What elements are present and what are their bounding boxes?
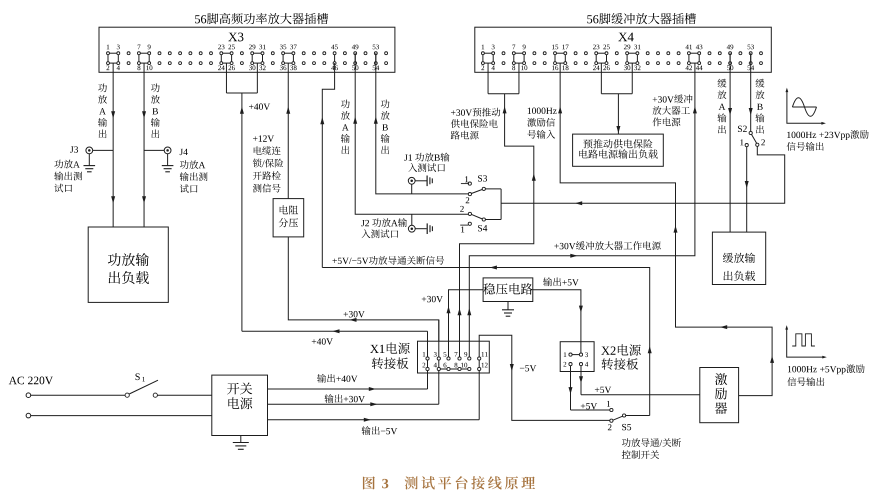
wire 功放B输出 (X3 pins 8/10 to 功放输出负载)	[142, 63, 146, 227]
mains input AC 220V	[9, 376, 212, 417]
label +5V at S5	[581, 403, 597, 409]
wire X4 pins 24-26/30-32 to 预推动 load box	[601, 63, 632, 134]
test port J4 功放A输出测试口	[144, 147, 188, 155]
label S5 功放导通/关断控制开关	[622, 438, 681, 459]
label 1000Hz +5Vpp激励信号输出	[787, 364, 864, 386]
label X2电源转接板	[601, 344, 641, 370]
switch S3 (功放B input select)	[461, 175, 501, 203]
wire 缓放B输出 (X4 pins 53/54 to S2)	[749, 53, 753, 131]
ground at J4	[162, 154, 174, 172]
box 功放输出负载	[88, 227, 168, 302]
label J3 功放A输出测试口	[54, 160, 82, 193]
connector X4 pins	[481, 45, 762, 71]
label 输出+5V	[543, 277, 579, 286]
label +30V缓冲放大器工作电源 (horizontal)	[554, 241, 660, 250]
wire +40V rail (switching PSU to X3)	[242, 329, 428, 333]
wire 输出+30V (PSU to X1 pins 4/3)	[268, 402, 439, 406]
wire 输出-5V (PSU to X1 pin 12)	[268, 418, 480, 422]
label 缓放B输出	[755, 79, 764, 134]
ground at J3	[84, 154, 96, 172]
switch S4 (功放A input select)	[460, 206, 501, 233]
label +30V预推动供电保险电路电源	[451, 108, 501, 140]
wire -5V feed-through (X1 pin 11 loop to S5 contact 2)	[479, 335, 610, 420]
label 输出-5V	[362, 426, 398, 435]
label 功放A输出 (right column)	[341, 100, 350, 155]
test port J2 功放A输入测试口	[408, 214, 432, 234]
wire +5V (X2 pin 4 to 激励器)	[579, 376, 700, 395]
label 1000Hz +23Vpp激励信号输出	[787, 130, 869, 151]
caption 图3 测试平台接线原理	[363, 476, 535, 489]
label J1 功放B输入测试口	[404, 153, 449, 172]
wire 功放B输出 right (X3 pins 53/54 to J1 line and S3)	[374, 53, 469, 194]
wire +5V/-5V 功放导通关断信号 (X3 pin 45/46 down to control line)	[320, 63, 334, 267]
box 电阻分压 (resistor divider)	[273, 199, 304, 237]
source icon 1000Hz +23Vpp sine	[786, 88, 826, 125]
box 预推动供电保险电路电源输出负载	[573, 134, 664, 166]
box 缓放输出负载	[712, 232, 765, 284]
label J2 功放A输入测试口	[361, 218, 407, 238]
label X1电源转接板	[370, 343, 410, 370]
label 缓放A输出	[717, 79, 726, 134]
wire +12V 电缆连锁/保险开路检测信号 (电阻分压 to X3 pins 36/38)	[286, 63, 290, 199]
wire +30V缓冲放大器工作电源 (X1 pin 9 to X4 pins 42/44)	[467, 63, 697, 358]
box 激励器 (exciter)	[700, 368, 739, 423]
board X1 电源转接板	[418, 320, 490, 420]
label 1000Hz激励信号输入	[527, 108, 557, 139]
wire 1000Hz激励信号输入 (激励器 loop up to X4 pins 16/18)	[558, 63, 774, 396]
wire 功放A输出 right (X3 pins 49/50 to J2 line and S4)	[353, 53, 468, 214]
wire 电阻分压 to +30V rail	[288, 237, 439, 341]
label +5V/-5V功放导通关断信号	[332, 256, 444, 265]
box 开关电源 (switching PSU)	[212, 375, 268, 435]
wire 功放A输出 (X3 pins 2/4 to 功放输出负载)	[111, 63, 115, 227]
label 输出+30V	[324, 394, 364, 403]
label 功放B输出 (second column)	[151, 84, 160, 139]
switch S5 功放导通/关断控制开关	[607, 401, 650, 430]
wire +5V (X2 pin 2 to S5 contact 1)	[569, 387, 610, 410]
connector X4 slot title	[587, 13, 696, 24]
connector X4 body	[475, 27, 772, 72]
label +5V at 激励器	[595, 387, 611, 393]
board X2 电源转接板	[560, 342, 594, 410]
ground at 稳压电路	[502, 302, 514, 317]
label +30V rail	[344, 311, 365, 318]
connector X3 slot title	[195, 13, 328, 24]
source icon 1000Hz +5Vpp square wave	[785, 325, 827, 358]
wire S2 contact 1 to 缓放输出负载	[745, 147, 749, 232]
wire S3/S4 output to S2 contact 2 (long horizontal)	[501, 147, 785, 206]
switch S1 (mains)	[125, 373, 212, 397]
label +40V rail	[312, 338, 333, 345]
wire +5V/-5V功放导通关断信号 (S5 pole to X3 pin 45)	[322, 266, 651, 416]
test port J1 功放B输入测试口	[408, 176, 432, 194]
wire +30V预推动供电保险电路电源 (X1 pin 7 up to X4 pins 2-4/8-10)	[458, 63, 536, 358]
label +30V at 稳压电路	[422, 296, 443, 303]
box 稳压电路 (voltage regulator)	[483, 278, 533, 302]
label 功放A输出 (left column)	[98, 84, 107, 139]
wire +30V to 稳压电路 (X1 pin 5)	[447, 290, 484, 359]
label +12V电缆连锁/保险开路检测信号	[253, 135, 283, 192]
wire 输出+5V (稳压电路 to X2 pin 3)	[533, 290, 583, 353]
label 功放B输出 (right column 2)	[381, 100, 390, 155]
label 输出+40V	[317, 374, 357, 383]
ground at 开关电源	[233, 436, 249, 450]
wire 缓放A输出 (X4 pins 49/50 to 缓放输出负载)	[728, 53, 732, 232]
wire 输出+40V (PSU to X1 pins 2/1)	[268, 387, 428, 391]
connector X3 pins	[106, 45, 387, 71]
label +30V缓冲放大器工作电源 (vertical block)	[652, 95, 692, 127]
label J4 功放A输出测试口	[180, 160, 208, 193]
switch S2 (缓放B output select)	[738, 126, 765, 147]
connector X3 body	[99, 27, 395, 72]
wire S3/S4 pole bar	[500, 189, 502, 220]
label +40V	[249, 103, 270, 110]
label -5V	[520, 365, 536, 371]
wire +40V supply (X3 pins 23-26/29-32 bracket down to +40V rail)	[226, 63, 257, 331]
test port J3 功放A输出测试口	[70, 146, 113, 153]
